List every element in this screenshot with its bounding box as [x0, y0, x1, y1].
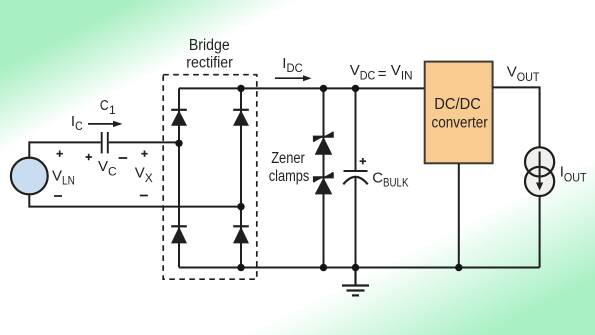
svg-text:clamps: clamps [269, 168, 310, 185]
svg-text:VIN: VIN [391, 62, 413, 83]
wire DC/DC output to current source [493, 87, 540, 147]
svg-text:IC: IC [71, 113, 83, 133]
polarity plus CBULK [360, 158, 366, 164]
diode D1 bridge top-left [171, 110, 187, 126]
label DC/DC converter [432, 96, 488, 131]
arrow IC [88, 121, 123, 127]
wire zener branch [323, 88, 325, 267]
node zener bottom [320, 264, 327, 271]
svg-text:DC/DC: DC/DC [434, 96, 481, 113]
label Bridge rectifier [186, 37, 233, 71]
node bridge input right [237, 203, 244, 210]
polarity plus VLN [57, 151, 63, 157]
polarity minus VX [140, 195, 148, 197]
svg-text:1: 1 [109, 103, 116, 117]
bridge rectifier dashed box [163, 75, 257, 280]
zener diode Z2 [314, 172, 333, 194]
svg-text:C: C [100, 97, 109, 114]
svg-text:Bridge: Bridge [189, 37, 230, 54]
diode D4 bridge bottom-right [233, 226, 249, 243]
polarity plus VC [86, 154, 92, 160]
node zener top [320, 85, 327, 92]
wire current source to bottom rail [539, 196, 541, 268]
node bridge input left [175, 140, 182, 147]
polarity plus VX [141, 151, 147, 157]
svg-text:converter: converter [432, 114, 488, 131]
node junction dots [175, 85, 462, 271]
diode D3 bridge bottom-left [171, 226, 187, 243]
arrow IDC [275, 75, 312, 81]
wire bridge left branch [178, 88, 180, 267]
svg-text:rectifier: rectifier [186, 54, 233, 71]
ground [342, 268, 369, 296]
svg-text:CBULK: CBULK [372, 170, 408, 190]
svg-text:VX: VX [135, 165, 153, 185]
capacitor CBULK [343, 171, 367, 184]
wire C1 to bridge left branch [109, 141, 179, 143]
wire DC/DC bottom to rail [458, 163, 460, 267]
node bridge output top [237, 85, 244, 92]
wire cbulk branch bottom [355, 178, 357, 268]
zener diode Z1 [314, 132, 333, 155]
node bridge output bottom [237, 264, 244, 271]
svg-text:VDC: VDC [350, 62, 376, 83]
wire bottom rail [179, 267, 540, 269]
svg-text:=: = [378, 65, 387, 82]
DC/DC converter U1 [425, 62, 493, 164]
current source IOUT [525, 147, 554, 196]
wire source bottom to bridge right branch [29, 194, 241, 206]
capacitor C1 [102, 132, 108, 153]
wire source top to C1 [29, 142, 100, 157]
node dcdc return [455, 264, 462, 271]
svg-text:IDC: IDC [282, 55, 303, 75]
svg-text:IOUT: IOUT [560, 163, 588, 184]
polarity minus VC [119, 157, 128, 159]
ac source VLN [11, 158, 48, 195]
polarity minus VLN [54, 195, 62, 197]
wire cbulk branch top [355, 88, 357, 170]
wire top rail [179, 87, 425, 89]
svg-text:VLN: VLN [52, 167, 75, 187]
svg-text:VC: VC [98, 158, 117, 178]
label Zener clamps [269, 150, 310, 185]
svg-text:Zener: Zener [271, 150, 305, 167]
diode D2 bridge top-right [233, 110, 249, 126]
wire bridge right branch [240, 88, 242, 267]
svg-text:VOUT: VOUT [507, 64, 540, 84]
node cbulk bottom ground [352, 264, 359, 271]
node cbulk top [352, 85, 359, 92]
